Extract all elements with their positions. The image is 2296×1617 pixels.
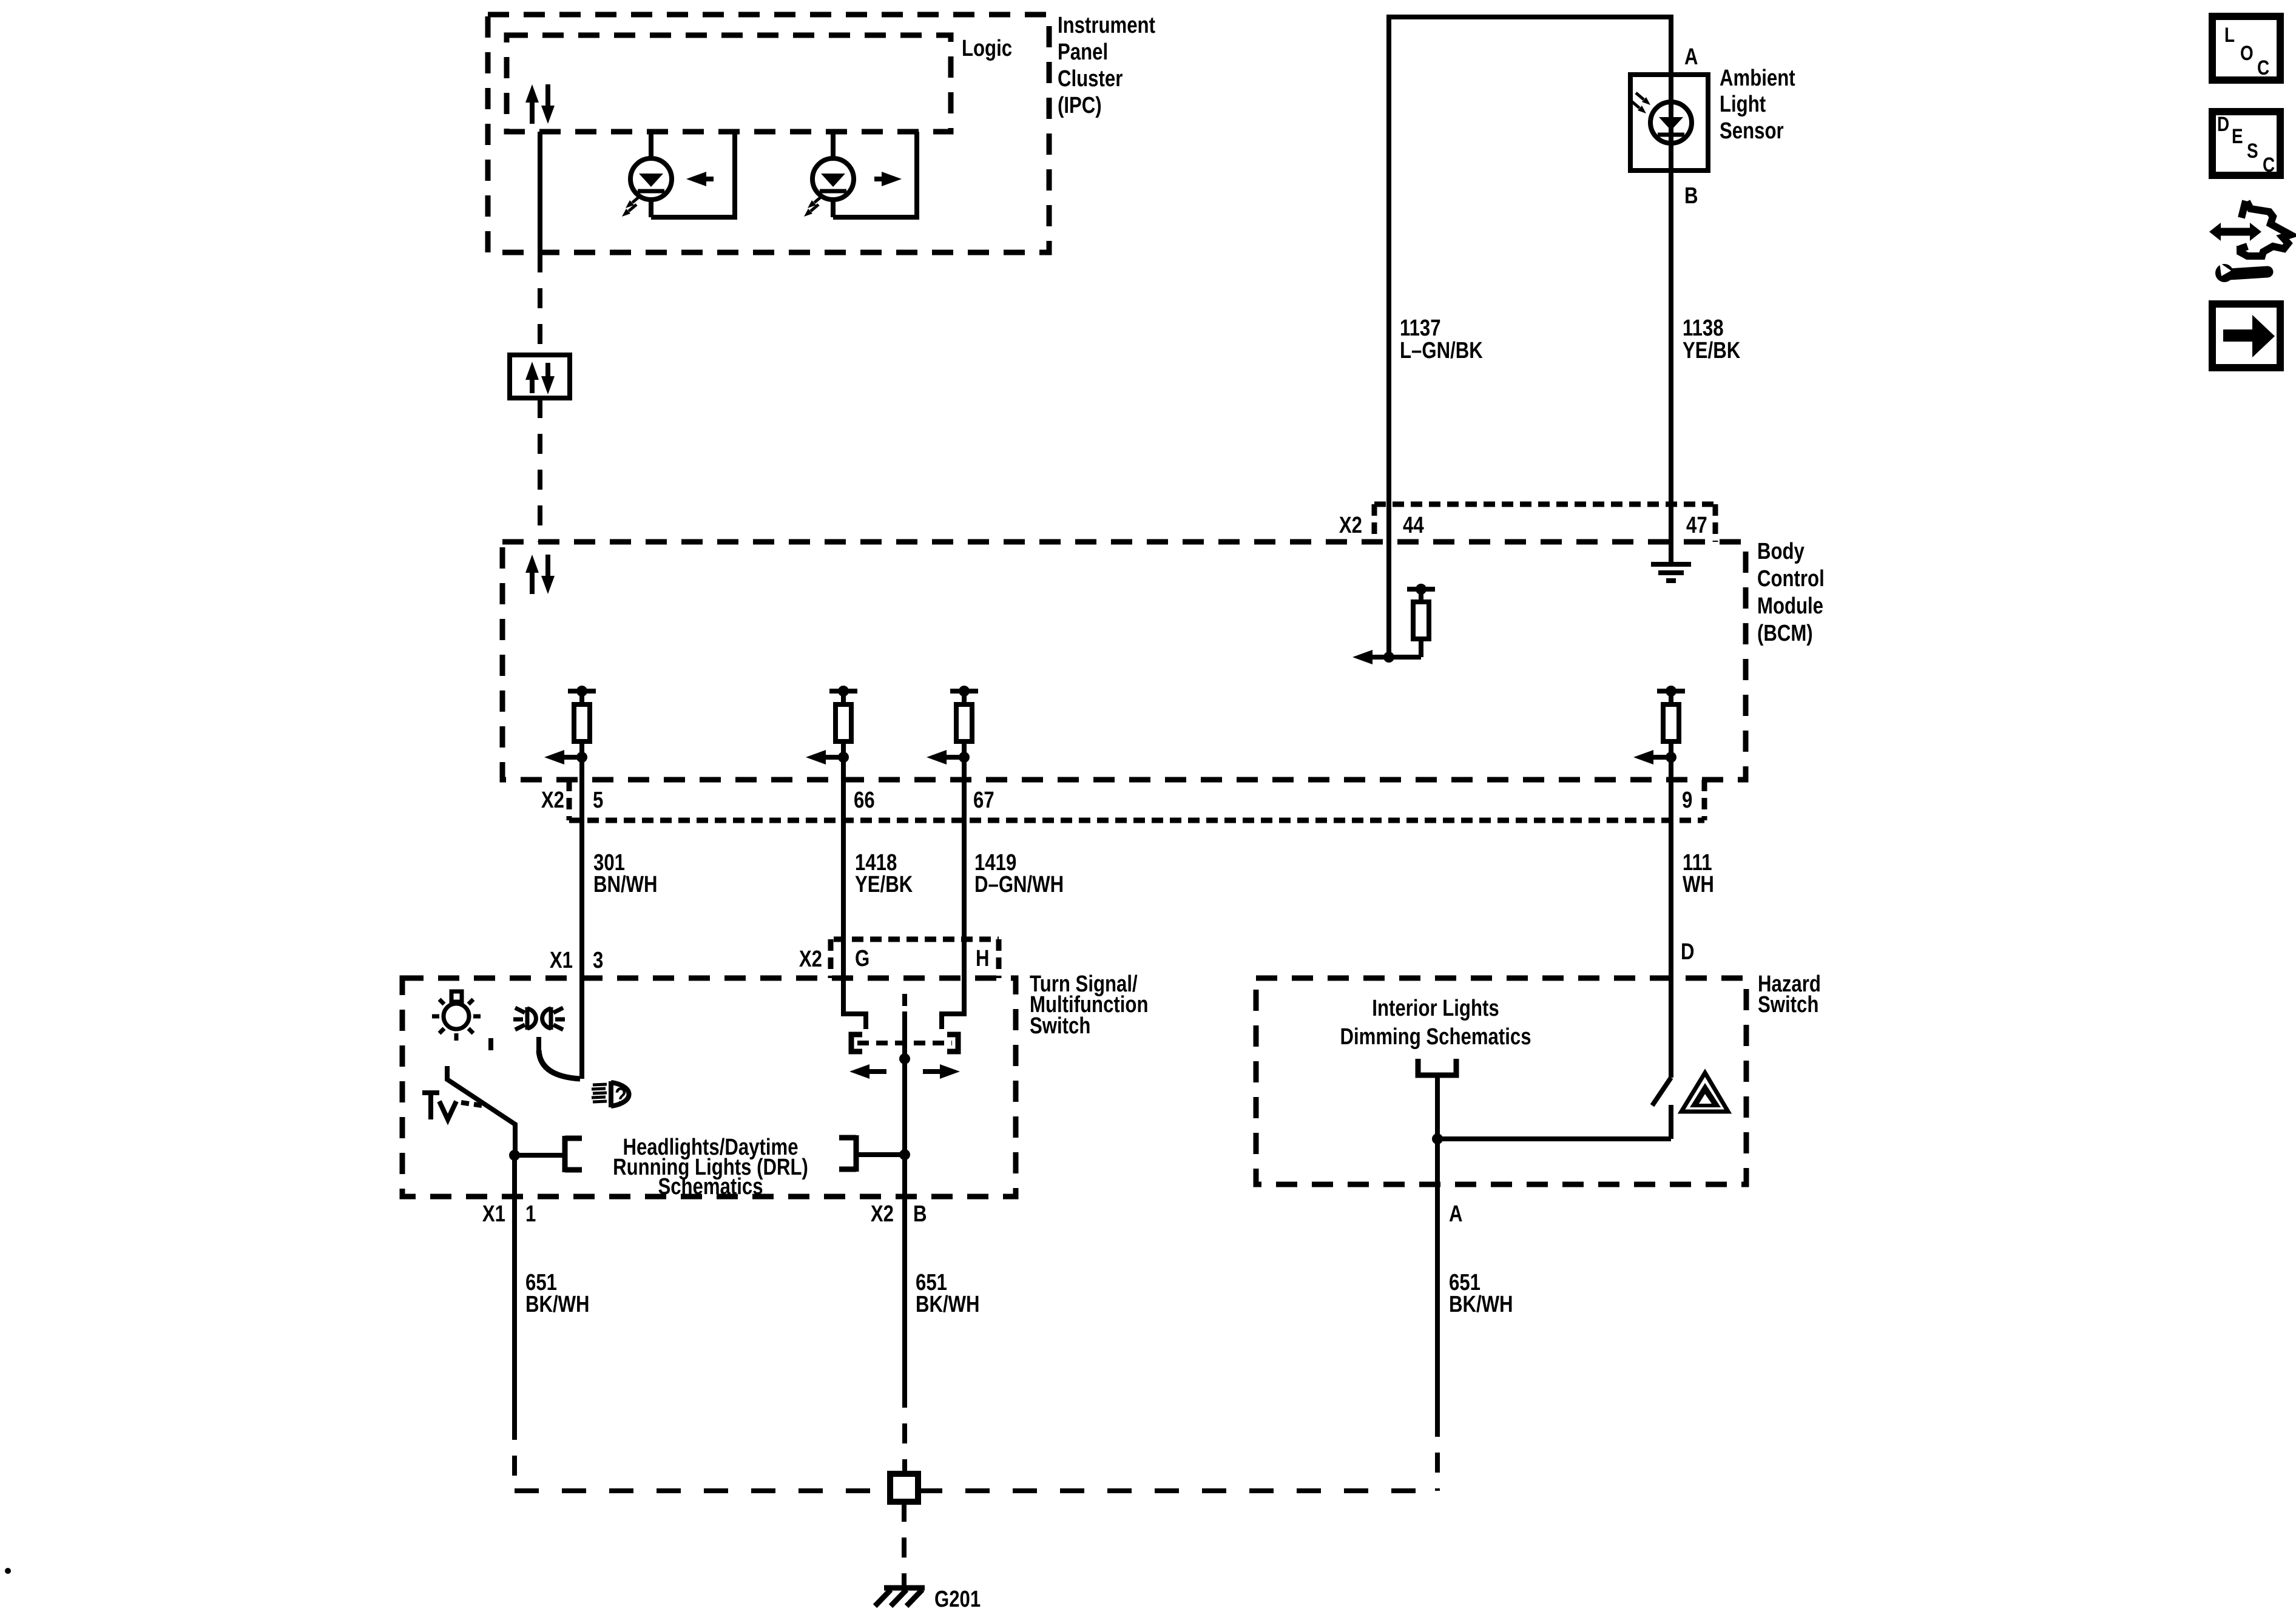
svg-text:A: A (1449, 1201, 1463, 1227)
wire 651 bottom dashed left (515, 1488, 890, 1493)
indicator LED right turn (IPC) (831, 132, 836, 159)
sensor internal wire (1669, 75, 1673, 170)
internal signal arrow at pin 66 (823, 755, 843, 760)
dashed serial data wire box to BCM (538, 398, 542, 542)
svg-text:H: H (976, 946, 990, 971)
arrow (signal direction) (703, 177, 714, 181)
connector X2 bottom dotted line (569, 818, 1704, 823)
svg-text:67: 67 (973, 788, 994, 813)
svg-text:A: A (1684, 44, 1698, 70)
junction dot center post (899, 1053, 910, 1064)
turn signal center post (902, 1022, 907, 1059)
dashed serial data wire IPC to interface box (538, 252, 542, 355)
wire 651 left solid (512, 1197, 517, 1420)
svg-text:X2: X2 (799, 947, 822, 972)
wire 1137 L-GN/BK (1389, 17, 1671, 542)
resistor pin 67 (BCM internal) (950, 689, 978, 694)
box: Logic (inside IPC), dashed (507, 35, 951, 132)
svg-text:Interior Lights: Interior Lights (1372, 996, 1499, 1021)
junction dot pin 5 (576, 752, 587, 763)
splice S-box (890, 1474, 918, 1502)
wire junction pin44 (1371, 655, 1421, 660)
svg-text:9: 9 (1682, 788, 1692, 813)
hazard fixed contact (1669, 1105, 1673, 1139)
wire 301 BN/WH (579, 780, 584, 979)
svg-text:Switch: Switch (1758, 992, 1818, 1018)
svg-text:BK/WH: BK/WH (1449, 1292, 1513, 1317)
turn signal movable contact bar (dashed) (857, 1041, 952, 1045)
svg-text:D: D (2217, 112, 2229, 135)
wire logic to IPC border (538, 132, 542, 252)
internal signal arrow at pin 9 (1650, 755, 1670, 760)
junction dot headlamp switch output (509, 1150, 520, 1161)
svg-text:WH: WH (1683, 872, 1714, 897)
svg-text:X2: X2 (871, 1201, 894, 1227)
wire 651 bottom dashed right (918, 1488, 1437, 1493)
connector X2 top left dotted separator (1372, 504, 1377, 542)
wire pin9 to border (1669, 757, 1673, 780)
svg-text:1137: 1137 (1400, 316, 1441, 341)
serial data arrows (BCM) (530, 572, 535, 594)
wire switch to X1-1 (512, 1155, 517, 1197)
connector X2 bottom left dotted separator (567, 780, 572, 820)
svg-text:Instrument: Instrument (1058, 13, 1155, 38)
wire 1138 YE/BK upper (1669, 75, 1673, 542)
connector X2 top dotted line (1374, 502, 1715, 507)
svg-text:D: D (1681, 939, 1695, 965)
box: Instrument Panel Cluster (IPC), dashed (488, 15, 1049, 252)
box: Body Control Module (BCM), dashed (502, 542, 1746, 780)
connector X2 bottom right dotted separator (1702, 780, 1707, 820)
svg-text:Light: Light (1720, 92, 1766, 117)
wire 651 left dashed (512, 1420, 517, 1491)
internal signal arrow pin 44 (1369, 655, 1373, 660)
svg-text:B: B (1684, 183, 1698, 209)
connector X2 G/H right dotted separator (996, 939, 1002, 978)
switch blade (447, 1066, 515, 1155)
svg-text:X2: X2 (1339, 513, 1362, 538)
contact hook G (843, 978, 866, 1029)
svg-text:5: 5 (593, 788, 603, 813)
hazard blade (1652, 1078, 1671, 1106)
svg-text:X1: X1 (482, 1201, 505, 1227)
DRL continuation bracket (right) (839, 1135, 856, 1172)
off-position dash (488, 1038, 493, 1050)
svg-text:B: B (913, 1201, 927, 1227)
wire to DRL bracket right (856, 1152, 905, 1157)
svg-text:L: L (2224, 23, 2235, 46)
LED loop wire left turn (651, 132, 735, 217)
off position icon (422, 1093, 482, 1119)
serial data interface box (510, 355, 570, 398)
resistor at pin 44 (BCM internal) (1407, 587, 1435, 592)
up/down arrows in interface box (530, 379, 535, 393)
connector X2 G/H left dotted separator (828, 939, 834, 978)
wire splice to ground dashed (902, 1502, 907, 1578)
svg-text:Cluster: Cluster (1058, 66, 1123, 92)
svg-text:Sensor: Sensor (1720, 118, 1784, 144)
connector X2 top right dotted separator (1713, 504, 1718, 542)
hazard warning triangle icon (1681, 1073, 1728, 1112)
wire pin5 to border (579, 757, 584, 780)
svg-text:YE/BK: YE/BK (855, 872, 913, 897)
svg-text:1138: 1138 (1683, 316, 1724, 341)
serial data arrows (IPC logic) (530, 101, 535, 124)
icon box arrow (next page) (2212, 304, 2280, 368)
contact hook H (942, 978, 964, 1029)
page artifact dot bottom-left (5, 1568, 11, 1574)
wire pin 47 internal (1669, 542, 1673, 564)
junction dot pin 66 (838, 752, 849, 763)
wire 111 WH (1669, 780, 1673, 1078)
icon box LOC (2212, 16, 2280, 80)
svg-text:Switch: Switch (1030, 1013, 1090, 1039)
LED light rays left turn (632, 196, 640, 203)
svg-text:L–GN/BK: L–GN/BK (1400, 338, 1483, 363)
svg-text:?: ? (615, 1082, 627, 1110)
DRL continuation bracket (left) (565, 1136, 582, 1172)
junction dot pin 9 (1666, 752, 1676, 763)
interior lights continuation bracket (1418, 1059, 1456, 1075)
ground stub (902, 1578, 907, 1588)
wire pin66 to border (841, 757, 846, 780)
svg-text:BK/WH: BK/WH (916, 1292, 980, 1317)
junction dot pin 67 (959, 752, 970, 763)
wrench icon (2215, 264, 2234, 282)
hand with double arrow icon (2237, 201, 2291, 256)
light rays into photodiode (1636, 93, 1644, 100)
double-headed arrow (2220, 228, 2251, 236)
contact bar right bracket (947, 1035, 958, 1052)
svg-text:C: C (2263, 153, 2275, 176)
svg-text:S: S (2247, 139, 2258, 162)
headlamp icon (611, 1081, 629, 1107)
svg-text:1: 1 (525, 1201, 536, 1227)
wire pin 44 internal (1386, 542, 1391, 657)
ground G201 symbol (875, 1588, 925, 1606)
icon box DESC (2212, 112, 2280, 175)
hazard wire to junction (1438, 1136, 1671, 1141)
parking lamps icon (513, 1007, 565, 1030)
wire 651 right dashed (1435, 1417, 1440, 1491)
svg-text:Dimming Schematics: Dimming Schematics (1340, 1024, 1531, 1050)
junction dot turn post / DRL (899, 1149, 910, 1160)
svg-text:44: 44 (1403, 513, 1424, 538)
arrow (signal direction) (874, 177, 885, 181)
resistor pin 5 (BCM internal) (568, 689, 596, 694)
wire 651 mid solid (902, 1197, 907, 1388)
photodiode (ambient light sensor) (1650, 102, 1692, 143)
wire pin67 to border (962, 757, 967, 780)
wire 651 mid dashed (902, 1388, 907, 1474)
wire 651 right solid (1435, 1184, 1440, 1417)
svg-text:Control: Control (1757, 566, 1825, 592)
LED light rays right turn (814, 196, 822, 203)
svg-text:(IPC): (IPC) (1058, 93, 1102, 118)
internal signal arrow at pin 5 (561, 755, 581, 760)
svg-text:C: C (2257, 56, 2269, 79)
contact bar left bracket (851, 1035, 862, 1052)
svg-text:Body: Body (1757, 539, 1805, 564)
svg-text:Schematics: Schematics (658, 1174, 763, 1200)
resistor pin 66 (BCM internal) (829, 689, 857, 694)
LED loop wire right turn (833, 132, 917, 217)
wire 301 into switch (579, 979, 584, 1079)
wire interior lights stem (1435, 1075, 1440, 1184)
wire 1418 YE/BK (841, 780, 846, 978)
svg-text:YE/BK: YE/BK (1683, 338, 1740, 363)
resistor pin 9 (BCM internal) (1657, 689, 1685, 694)
indicator LED left turn (IPC) (649, 132, 653, 159)
light switch knob icon (sun) (432, 991, 481, 1041)
svg-text:O: O (2240, 41, 2254, 64)
wire 1419 D-GN/WH (962, 780, 967, 978)
svg-text:Ambient: Ambient (1720, 66, 1795, 91)
svg-text:Logic: Logic (962, 36, 1012, 61)
connector X2 G/H dotted line (834, 937, 999, 942)
box: Turn Signal/Multifunction Switch, dashed (402, 978, 1016, 1197)
svg-text:G201: G201 (934, 1587, 981, 1612)
svg-text:X1: X1 (550, 948, 573, 973)
svg-text:D–GN/WH: D–GN/WH (974, 872, 1064, 897)
wire to DRL bracket left (515, 1153, 565, 1158)
svg-text:BN/WH: BN/WH (593, 872, 658, 897)
svg-text:3: 3 (593, 948, 603, 973)
svg-text:E: E (2232, 124, 2243, 147)
ground symbol (BCM internal, pin 47) (1651, 564, 1691, 581)
svg-text:Panel: Panel (1058, 39, 1108, 65)
parking contact arc (switch position) (536, 1037, 541, 1050)
svg-text:Module: Module (1757, 593, 1823, 619)
box: Hazard Switch, dashed (1256, 978, 1746, 1184)
junction dot hazard/interior (1432, 1133, 1443, 1144)
wire center post down (902, 1059, 907, 1197)
svg-text:X2: X2 (541, 788, 564, 813)
turn signal lever dashed stub (902, 994, 907, 1022)
Ambient Light Sensor box (1630, 75, 1708, 170)
svg-text:G: G (855, 946, 869, 971)
left/right movement arrows (866, 1069, 886, 1074)
svg-text:(BCM): (BCM) (1757, 621, 1813, 646)
svg-text:BK/WH: BK/WH (525, 1292, 590, 1317)
internal signal arrow at pin 67 (944, 755, 964, 760)
svg-text:47: 47 (1686, 513, 1707, 538)
svg-text:66: 66 (854, 788, 875, 813)
